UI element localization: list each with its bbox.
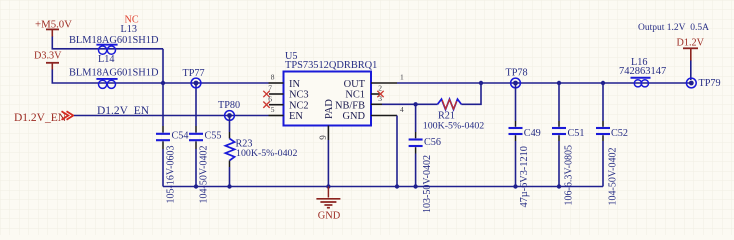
svg-text:NB/FB: NB/FB <box>335 100 365 111</box>
wire EN net <box>74 115 269 117</box>
wire from D3.3V through L14 to U5 pin 8 <box>52 70 268 84</box>
svg-text:8: 8 <box>271 73 275 82</box>
pin 6 <box>269 104 284 106</box>
svg-text:TP80: TP80 <box>218 100 240 111</box>
ferrite bead L13 <box>96 45 117 55</box>
test point TP78 <box>506 68 528 88</box>
svg-text:NC3: NC3 <box>289 90 309 101</box>
svg-text:BLM18AG601SH1D: BLM18AG601SH1D <box>69 35 159 46</box>
svg-text:2: 2 <box>378 84 382 93</box>
svg-text:5: 5 <box>271 105 275 114</box>
pin 8 <box>269 82 284 84</box>
svg-text:OUT: OUT <box>344 79 366 90</box>
capacitor C49 <box>509 83 541 208</box>
svg-text:C52: C52 <box>611 128 628 139</box>
svg-text:Output 1.2V 0.5A: Output 1.2V 0.5A <box>638 23 709 33</box>
capacitor C55 <box>189 83 221 204</box>
test point TP77 <box>183 68 205 88</box>
wire D1.2V to TP79 <box>690 61 692 81</box>
power port D3.3V <box>34 51 62 70</box>
svg-text:D3.3V: D3.3V <box>34 51 62 62</box>
power port +M5.0V <box>35 19 72 37</box>
ferrite bead L14 <box>96 79 117 89</box>
ground symbol GND <box>316 187 340 222</box>
svg-text:106-6.3V-0805: 106-6.3V-0805 <box>564 145 575 205</box>
op IC U5 TPS73512QDRBRQ1 <box>284 51 378 126</box>
capacitor C54 <box>156 83 188 204</box>
svg-text:105-16V-0603: 105-16V-0603 <box>166 146 177 204</box>
pin 7 <box>269 93 284 95</box>
svg-text:L14: L14 <box>98 54 114 65</box>
resistor R23 <box>225 116 297 187</box>
svg-text:C55: C55 <box>205 131 222 142</box>
node: R23 to ground rail <box>227 184 231 188</box>
svg-text:GND: GND <box>342 111 365 122</box>
pin 2 <box>371 93 382 95</box>
svg-text:PAD: PAD <box>324 99 335 119</box>
svg-text:IN: IN <box>289 79 300 90</box>
power port D1.2V <box>677 37 705 61</box>
svg-text:100K-5%-0402: 100K-5%-0402 <box>423 120 484 131</box>
svg-text:GND: GND <box>318 210 341 221</box>
svg-text:BLM18AG601SH1D: BLM18AG601SH1D <box>69 67 159 78</box>
pin 3 <box>371 103 382 105</box>
pin 9 PAD <box>327 126 329 141</box>
svg-text:TPS73512QDRBRQ1: TPS73512QDRBRQ1 <box>285 60 377 71</box>
wire FB net <box>382 103 438 105</box>
svg-text:103-50V-0402: 103-50V-0402 <box>422 155 433 213</box>
pin 5 <box>269 115 284 117</box>
svg-text:C56: C56 <box>424 137 441 148</box>
svg-text:100K-5%-0402: 100K-5%-0402 <box>236 148 297 159</box>
svg-text:EN: EN <box>289 111 303 122</box>
capacitor C52 <box>596 81 628 206</box>
test point TP79 <box>686 78 720 89</box>
wire from +M5.0V to L13 <box>52 37 163 49</box>
node: input rail junction <box>161 81 165 85</box>
svg-text:104-50V-0402: 104-50V-0402 <box>199 146 210 204</box>
svg-text:C49: C49 <box>524 128 541 139</box>
svg-text:D1.2V: D1.2V <box>677 37 705 48</box>
capacitor C51 <box>552 81 584 206</box>
svg-text:4: 4 <box>400 105 404 114</box>
svg-text:D1.2V_EN: D1.2V_EN <box>14 112 67 124</box>
wire R21 to OUT <box>461 83 481 104</box>
svg-text:TP77: TP77 <box>183 68 205 79</box>
test point TP80 <box>218 100 240 121</box>
wire pin4 GND down <box>396 116 398 187</box>
svg-text:3: 3 <box>378 94 382 103</box>
svg-text:742863147: 742863147 <box>619 66 666 77</box>
wire L13 right down to input rail <box>162 49 164 83</box>
pin 4 <box>371 115 397 117</box>
node: C55 to ground rail <box>194 184 198 188</box>
svg-text:47µ-6V3-1210: 47µ-6V3-1210 <box>519 146 530 207</box>
svg-text:TP79: TP79 <box>699 78 721 89</box>
ground rail <box>163 186 603 188</box>
svg-text:NC1: NC1 <box>345 90 365 101</box>
svg-text:TP78: TP78 <box>506 68 528 79</box>
svg-text:NC2: NC2 <box>289 100 309 111</box>
capacitor C56 <box>409 104 441 213</box>
inductor L16 <box>619 57 666 87</box>
svg-text:1: 1 <box>400 73 404 82</box>
wire OUT net <box>397 82 692 84</box>
resistor R21 <box>423 99 484 131</box>
svg-text:104-50V-0402: 104-50V-0402 <box>608 148 619 206</box>
svg-text:D1.2V_EN: D1.2V_EN <box>97 105 150 117</box>
port D1.2V_EN <box>14 111 73 124</box>
svg-text:9: 9 <box>318 135 328 140</box>
svg-text:L13: L13 <box>121 24 137 35</box>
svg-text:C51: C51 <box>568 128 585 139</box>
svg-text:C54: C54 <box>172 131 189 142</box>
pin 1 <box>371 82 397 84</box>
